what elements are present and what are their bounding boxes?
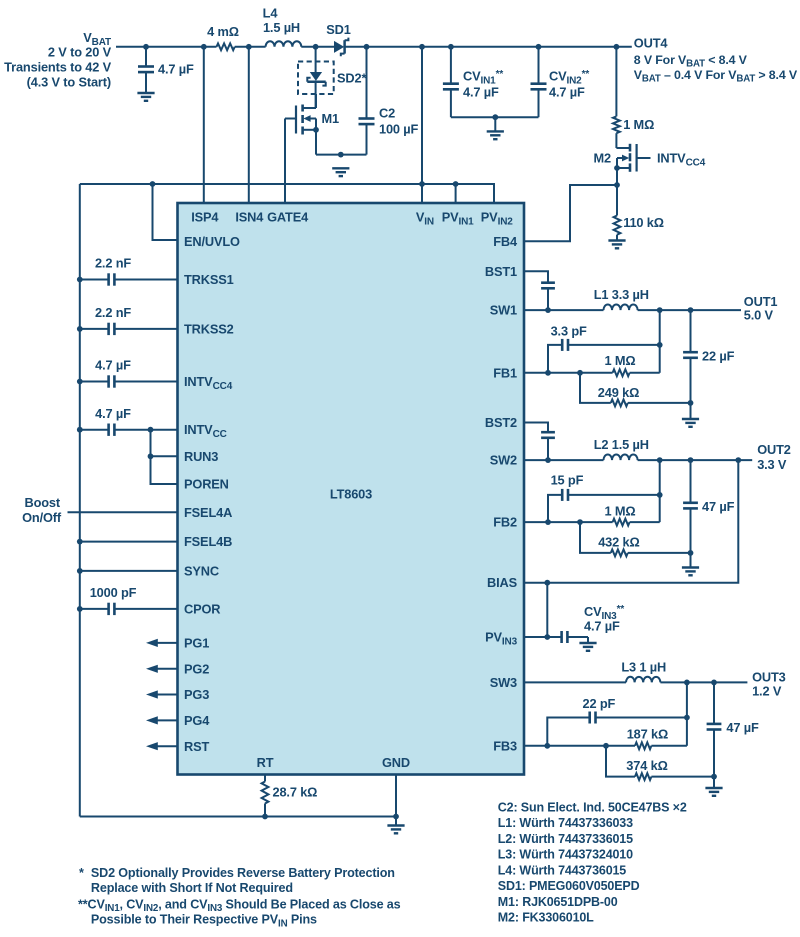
resistor 4 mOhm xyxy=(207,24,239,50)
svg-text:4 mΩ: 4 mΩ xyxy=(207,24,239,39)
transistor M1 xyxy=(285,94,339,135)
capacitor 4.7uF input xyxy=(138,47,194,93)
svg-text:M1: M1 xyxy=(322,111,340,126)
resistor 432 kOhm xyxy=(580,522,691,556)
wire SW2 out xyxy=(524,459,604,461)
wire fb2 riser xyxy=(659,460,661,522)
svg-text:L1 3.3 µH: L1 3.3 µH xyxy=(594,287,649,302)
svg-text:RT: RT xyxy=(257,755,274,770)
capacitor 22pF xyxy=(547,696,687,746)
node OUT2 cap tap xyxy=(688,457,694,463)
ground ch1 xyxy=(682,418,699,420)
svg-text:FB3: FB3 xyxy=(493,738,517,753)
svg-text:L2 1.5 µH: L2 1.5 µH xyxy=(594,437,649,452)
resistor 187 kOhm xyxy=(627,727,687,750)
svg-text:M2: M2 xyxy=(594,151,612,166)
svg-text:ISN4: ISN4 xyxy=(235,210,264,225)
svg-text:POREN: POREN xyxy=(184,477,229,492)
pin INTVCC xyxy=(184,422,227,440)
svg-text:4.7 µF: 4.7 µF xyxy=(463,84,499,99)
capacitor BST2 xyxy=(524,423,555,461)
svg-text:FB1: FB1 xyxy=(493,365,517,380)
wire RUN3 xyxy=(151,455,178,457)
pin BST2 xyxy=(485,415,517,430)
ground ch3 xyxy=(705,787,722,789)
svg-text:SW2: SW2 xyxy=(490,453,517,468)
wire VIN branch xyxy=(421,47,423,203)
node FB1 bst xyxy=(545,370,551,376)
wire SD1 to OUT4 xyxy=(345,46,632,48)
capacitor 22uF xyxy=(683,310,734,403)
wire EN/UVLO branch xyxy=(153,184,178,240)
svg-text:432 kΩ: 432 kΩ xyxy=(598,535,639,550)
inductor L4 1.5uH xyxy=(263,6,302,47)
svg-text:5.0 V: 5.0 V xyxy=(744,307,774,322)
svg-text:1000 pF: 1000 pF xyxy=(90,585,137,600)
svg-text:FB2: FB2 xyxy=(493,515,517,530)
wire arrow PG2 xyxy=(146,665,178,673)
pin TRKSS2 xyxy=(184,321,234,336)
svg-text:FSEL4A: FSEL4A xyxy=(184,505,232,520)
pin EN/UVLO xyxy=(184,234,240,249)
resistor 1 MOhm FB2 xyxy=(605,503,660,525)
wire L2 to OUT2 xyxy=(638,459,753,461)
diode SD1 xyxy=(326,22,350,56)
pin RST xyxy=(184,739,209,754)
wire fb3 riser xyxy=(686,682,688,745)
node M1 ground xyxy=(338,152,344,158)
svg-text:BST1: BST1 xyxy=(485,264,517,279)
wire GATE4 to M1 gate xyxy=(284,119,286,204)
wire ISN4 to sense resistor xyxy=(248,47,250,203)
capacitor BST1 xyxy=(524,271,555,310)
op-amp U1 LT8603 block xyxy=(178,203,525,775)
resistor 249 kOhm xyxy=(580,373,691,407)
wire CVIN common xyxy=(451,116,539,118)
resistor 1 MOhm divider xyxy=(613,47,654,133)
node OUT4 label xyxy=(634,35,798,84)
svg-text:EN/UVLO: EN/UVLO xyxy=(184,234,240,249)
svg-text:L3: Würth 74437324010: L3: Würth 74437324010 xyxy=(498,848,633,862)
node PVIN3 xyxy=(544,634,550,640)
pin VIN xyxy=(416,210,434,228)
node PVIN1-184 xyxy=(453,181,459,187)
svg-text:47 µF: 47 µF xyxy=(726,720,759,735)
node 374k out xyxy=(711,774,717,780)
wire FB1 xyxy=(524,372,613,374)
svg-text:15 pF: 15 pF xyxy=(551,473,584,488)
svg-text:LT8603: LT8603 xyxy=(330,487,372,502)
node SD2 branch xyxy=(313,44,319,50)
node rail 2.2nF TRKSS1 xyxy=(77,277,83,283)
wire SW3 out xyxy=(524,681,626,683)
svg-text:Transients to 42 V: Transients to 42 V xyxy=(4,60,111,75)
svg-text:*: * xyxy=(79,866,84,880)
wire BIAS to PVIN3 xyxy=(546,583,548,637)
node OUT3 cap tap xyxy=(711,680,717,686)
node 432k out xyxy=(688,550,694,556)
node footnotes xyxy=(78,866,401,929)
wire FB4 route xyxy=(524,185,617,241)
svg-text:Boost: Boost xyxy=(24,495,60,510)
svg-text:OUT4: OUT4 xyxy=(634,35,669,50)
svg-text:M2: FK3306010L: M2: FK3306010L xyxy=(498,911,594,925)
svg-text:249 kΩ: 249 kΩ xyxy=(598,385,639,400)
resistor 374 kOhm xyxy=(606,746,714,780)
node CVIN1 branch xyxy=(448,44,454,50)
wire FB2 xyxy=(524,521,613,523)
svg-text:1.5 µH: 1.5 µH xyxy=(263,20,300,35)
node rail 4.7uF INTVCC4 xyxy=(77,379,83,385)
svg-text:1.2 V: 1.2 V xyxy=(752,684,782,699)
svg-text:FSEL4B: FSEL4B xyxy=(184,534,232,549)
wire M1 source to ground rail xyxy=(315,130,317,155)
node FB3 div xyxy=(603,743,609,749)
node BST1-SW1 xyxy=(545,307,551,313)
node BIAS branch xyxy=(544,580,550,586)
VBAT source labels xyxy=(4,30,111,90)
ground M1 source xyxy=(332,167,349,169)
svg-text:PG4: PG4 xyxy=(184,713,210,728)
node FB1 div xyxy=(577,370,583,376)
node ISN4 tap xyxy=(246,44,252,50)
pin SW1 xyxy=(490,303,517,318)
svg-text:1 MΩ: 1 MΩ xyxy=(623,117,654,132)
node EN branch xyxy=(150,181,156,187)
node rail SYNC xyxy=(77,568,83,574)
wire BIAS xyxy=(524,460,738,583)
svg-text:SW1: SW1 xyxy=(490,303,517,318)
wire ch3 gnd stub xyxy=(713,777,715,788)
svg-text:C2: C2 xyxy=(379,106,395,121)
pin GATE4 xyxy=(267,210,309,225)
svg-text:1 MΩ: 1 MΩ xyxy=(605,353,636,368)
node OUT2 label xyxy=(757,442,791,472)
capacitor 47uF ch2 xyxy=(683,460,734,553)
wire RUN3/POREN link xyxy=(151,430,178,484)
pin FB4 xyxy=(493,234,518,249)
svg-text:28.7 kΩ: 28.7 kΩ xyxy=(273,785,318,800)
svg-text:Replace with Short If Not Requ: Replace with Short If Not Required xyxy=(91,881,293,895)
svg-text:L4: L4 xyxy=(263,6,279,21)
ground CVIN caps xyxy=(487,130,504,132)
wire GND stub xyxy=(395,817,397,826)
pin GND xyxy=(382,755,410,770)
svg-text:22 µF: 22 µF xyxy=(702,349,735,364)
wire SYNC xyxy=(80,570,178,572)
svg-text:ISP4: ISP4 xyxy=(191,210,219,225)
inductor L2 1.5uH xyxy=(594,437,649,460)
wire FSEL4B xyxy=(80,541,178,543)
wire ch1 gnd stub xyxy=(690,403,692,419)
node FB2 bst xyxy=(545,519,551,525)
pin BIAS xyxy=(487,575,518,590)
svg-text:4.7 µF: 4.7 µF xyxy=(95,358,131,373)
ground GND pin xyxy=(387,824,404,826)
svg-text:47 µF: 47 µF xyxy=(702,499,735,514)
node INTVCC branch xyxy=(148,427,154,433)
pin FB3 xyxy=(493,738,517,753)
wire arrow RST xyxy=(146,742,178,750)
svg-text:SW3: SW3 xyxy=(490,675,517,690)
ground 110k xyxy=(608,239,625,241)
wire arrow PG4 xyxy=(146,716,178,724)
wire SW1 out xyxy=(524,309,604,311)
svg-text:SD1: SD1 xyxy=(326,22,350,37)
node FB3 bst xyxy=(544,743,550,749)
pin PG1 xyxy=(184,635,209,650)
node OUT2 bias tap xyxy=(735,457,741,463)
pin PG2 xyxy=(184,661,209,676)
node rail 4.7uF INTVCC xyxy=(77,427,83,433)
pin FB2 xyxy=(493,515,517,530)
svg-text:L3 1 µH: L3 1 µH xyxy=(621,659,666,674)
wire ISP4 to sense resistor xyxy=(203,47,205,203)
svg-text:4.7 µF: 4.7 µF xyxy=(95,406,131,421)
node FB4 junction xyxy=(614,182,620,188)
pin PVIN3 xyxy=(485,630,517,648)
diode SD2 reverse protection xyxy=(298,47,366,108)
wire arrow PG1 xyxy=(146,639,178,647)
pin FSEL4A xyxy=(184,505,232,520)
capacitor CVIN2 4.7uF xyxy=(531,47,590,117)
svg-text:3.3 pF: 3.3 pF xyxy=(551,324,587,339)
capacitor 47uF ch3 xyxy=(707,682,759,776)
node rail FSEL4B xyxy=(77,539,83,545)
capacitor 2.2nF TRKSS2 xyxy=(80,305,178,335)
pin POREN xyxy=(184,477,229,492)
node VBAT input cap xyxy=(143,44,149,50)
capacitor 2.2nF TRKSS1 xyxy=(80,256,178,286)
wire VBAT to 4m-ohm resistor xyxy=(116,46,217,48)
pin RUN3 xyxy=(184,449,218,464)
node OUT4 divider xyxy=(614,44,620,50)
resistor 28.7 kOhm RT xyxy=(262,775,318,817)
node OUT1 cap tap xyxy=(688,307,694,313)
inductor L1 3.3uH xyxy=(594,287,649,310)
svg-text:L4: Würth 7443736015: L4: Würth 7443736015 xyxy=(498,863,627,877)
svg-text:SD1: PMEG060V050EPD: SD1: PMEG060V050EPD xyxy=(498,879,640,893)
node fb3 cap xyxy=(684,715,690,721)
pin ISP4 xyxy=(191,210,219,225)
svg-text:M1: RJK0651DPB-00: M1: RJK0651DPB-00 xyxy=(498,895,618,909)
capacitor 4.7uF INTVCC xyxy=(80,406,178,436)
pin CPOR xyxy=(184,601,220,616)
node VIN-184 xyxy=(419,181,425,187)
capacitor 1000pF CPOR xyxy=(80,585,178,615)
svg-text:On/Off: On/Off xyxy=(22,510,62,525)
svg-text:L2: Würth 74437336015: L2: Würth 74437336015 xyxy=(498,832,633,846)
ground ch2 xyxy=(682,566,699,568)
wire GND pin xyxy=(395,775,397,817)
svg-text:PG3: PG3 xyxy=(184,687,209,702)
node FB2 div xyxy=(577,519,583,525)
pin SW2 xyxy=(490,453,517,468)
svg-text:110 kΩ: 110 kΩ xyxy=(623,215,664,230)
svg-text:SD2 Optionally Provides Revers: SD2 Optionally Provides Reverse Battery … xyxy=(91,866,395,880)
wire EN manifold xyxy=(80,184,494,203)
svg-text:SYNC: SYNC xyxy=(184,563,219,578)
capacitor CVIN3 4.7uF xyxy=(524,604,624,643)
wire FSEL4A boost input xyxy=(68,511,178,513)
svg-text:374 kΩ: 374 kΩ xyxy=(626,758,667,773)
resistor 1 MOhm FB1 xyxy=(605,353,660,376)
ground input cap xyxy=(137,92,154,94)
capacitor 15pF xyxy=(548,473,660,522)
wire bottom rail xyxy=(80,816,396,818)
svg-text:OUT2: OUT2 xyxy=(757,442,791,457)
ground CVIN3 xyxy=(579,642,596,644)
svg-text:BIAS: BIAS xyxy=(487,575,518,590)
svg-text:2.2 nF: 2.2 nF xyxy=(95,256,131,271)
capacitor 3.3pF xyxy=(548,324,660,373)
pin RT xyxy=(257,755,274,770)
pin PG4 xyxy=(184,713,210,728)
node RT bottom xyxy=(262,814,268,820)
svg-text:3.3 V: 3.3 V xyxy=(757,457,787,472)
svg-text:4.7 µF: 4.7 µF xyxy=(549,84,585,99)
svg-text:TRKSS1: TRKSS1 xyxy=(184,272,234,287)
node Boost label xyxy=(22,495,62,525)
wire L1 to OUT1 xyxy=(638,309,741,311)
svg-text:(4.3 V to Start): (4.3 V to Start) xyxy=(27,75,111,90)
node rail CPOR xyxy=(77,606,83,612)
capacitor 4.7uF INTVCC4 xyxy=(80,358,178,388)
svg-text:22 pF: 22 pF xyxy=(583,696,616,711)
node RUN3 xyxy=(148,453,154,459)
svg-text:OUT3: OUT3 xyxy=(752,669,786,684)
pin ISN4 xyxy=(235,210,264,225)
svg-text:1 MΩ: 1 MΩ xyxy=(605,503,636,518)
wire FB3 xyxy=(524,745,635,747)
wire L3 to OUT3 xyxy=(660,681,747,683)
svg-text:TRKSS2: TRKSS2 xyxy=(184,321,234,336)
node OUT3 label xyxy=(752,669,786,698)
pin FB1 xyxy=(493,365,517,380)
node fb2 cap xyxy=(657,492,663,498)
svg-text:BST2: BST2 xyxy=(485,415,517,430)
pin FSEL4B xyxy=(184,534,232,549)
transistor M2 xyxy=(594,133,706,172)
node C2 branch xyxy=(364,44,370,50)
svg-text:RST: RST xyxy=(184,739,209,754)
wire fb1 riser xyxy=(659,310,661,373)
node ISP4 tap xyxy=(201,44,207,50)
pin SYNC xyxy=(184,563,219,578)
node fb1 cap xyxy=(657,342,663,348)
pin SW3 xyxy=(490,675,517,690)
svg-text:SD2*: SD2* xyxy=(337,71,366,86)
node BOM notes xyxy=(498,800,687,924)
svg-text:GND: GND xyxy=(382,755,410,770)
svg-text:2 V to 20 V: 2 V to 20 V xyxy=(48,45,112,60)
svg-text:GATE4: GATE4 xyxy=(267,210,309,225)
svg-text:187 kΩ: 187 kΩ xyxy=(627,727,668,742)
node L2 fb tap xyxy=(657,457,663,463)
wire PVIN1 drop xyxy=(455,184,457,203)
svg-text:4.7 µF: 4.7 µF xyxy=(158,62,194,77)
capacitor CVIN1 4.7uF xyxy=(443,47,503,117)
svg-text:C2: Sun Elect. Ind. 50CE47BS ×: C2: Sun Elect. Ind. 50CE47BS ×2 xyxy=(498,800,687,814)
pin PVIN2 xyxy=(481,210,513,228)
svg-text:CPOR: CPOR xyxy=(184,601,220,616)
svg-text:L1: Würth 74437336033: L1: Würth 74437336033 xyxy=(498,816,633,830)
wire ch2 gnd stub xyxy=(690,553,692,568)
pin PG3 xyxy=(184,687,209,702)
svg-text:2.2 nF: 2.2 nF xyxy=(95,305,131,320)
svg-text:RUN3: RUN3 xyxy=(184,449,218,464)
wire L4 to SD1 xyxy=(301,46,334,48)
svg-text:FB4: FB4 xyxy=(493,234,518,249)
pin INTVCC4 xyxy=(184,374,233,392)
node OUT1 label xyxy=(744,294,778,323)
node GND bottom xyxy=(393,814,399,820)
svg-text:100 µF: 100 µF xyxy=(379,122,419,137)
svg-text:PG1: PG1 xyxy=(184,635,209,650)
wire resistor to L4 xyxy=(235,46,266,48)
wire CVIN3 gnd stub xyxy=(587,637,589,643)
node L3 fb tap xyxy=(684,680,690,686)
node VIN branch xyxy=(419,44,425,50)
resistor 110 kOhm xyxy=(614,185,664,241)
capacitor C2 100uF xyxy=(359,47,419,155)
node L1 fb tap xyxy=(657,307,663,313)
wire left rail xyxy=(79,184,81,817)
node rail 2.2nF TRKSS2 xyxy=(77,326,83,332)
node CVIN2 branch xyxy=(536,44,542,50)
svg-text:PG2: PG2 xyxy=(184,661,209,676)
wire arrow PG3 xyxy=(146,690,178,698)
wire M2 source to FB4 node xyxy=(616,168,618,185)
node CVIN ground xyxy=(492,114,498,120)
wire CVIN gnd stub xyxy=(494,117,496,131)
pin TRKSS1 xyxy=(184,272,234,287)
svg-text:4.7 µF: 4.7 µF xyxy=(584,618,620,633)
node BST2-SW2 xyxy=(545,457,551,463)
node 249k out xyxy=(688,400,694,406)
pin BST1 xyxy=(485,264,517,279)
pin PVIN1 xyxy=(442,210,474,228)
inductor L3 1uH xyxy=(621,659,666,682)
